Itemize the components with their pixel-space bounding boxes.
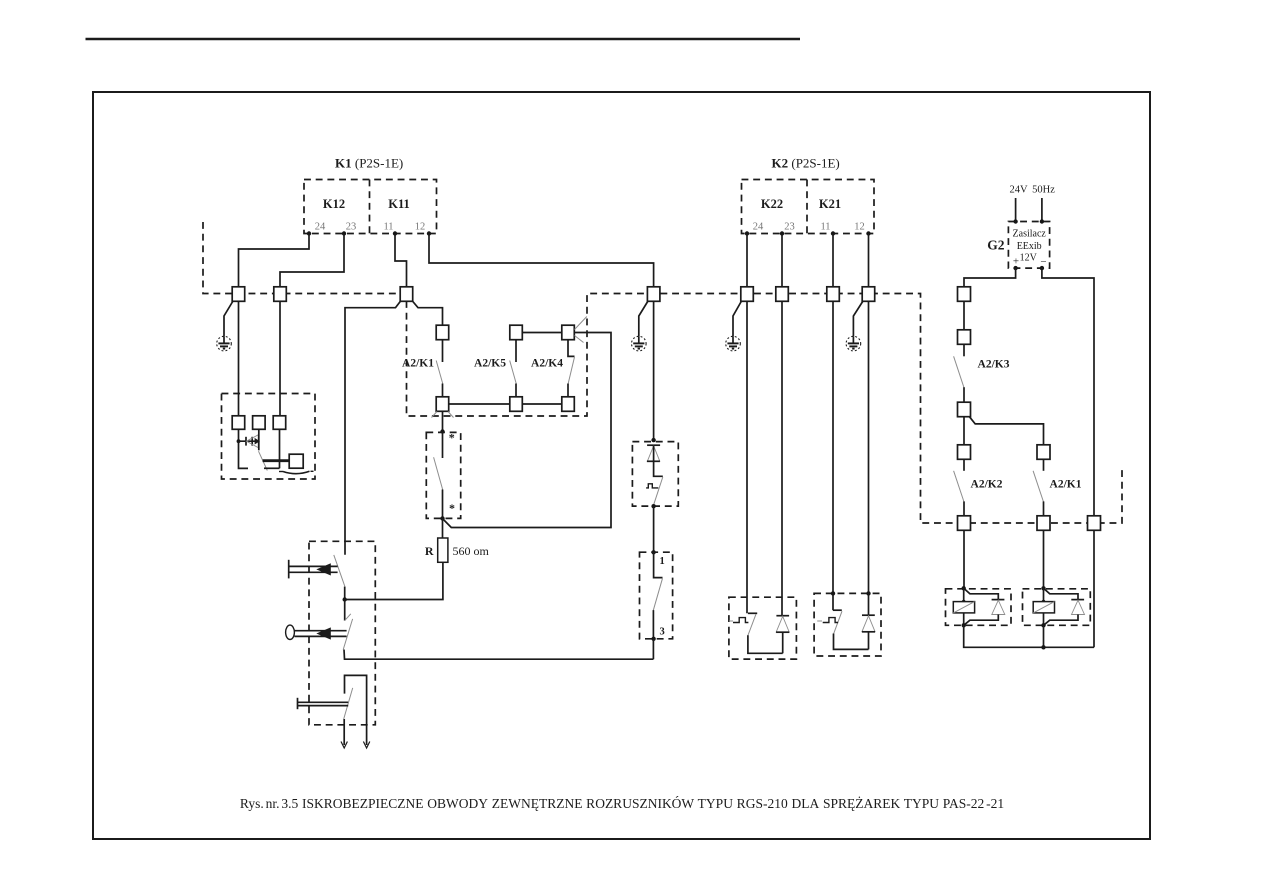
wire A2/K1 upper: [442, 340, 444, 362]
wire A2/K1 right to bus2: [1043, 501, 1045, 516]
relay K2 diode cathode bar: [1071, 599, 1084, 601]
terminal b of sensor: [253, 416, 266, 430]
ground at X9: [846, 336, 861, 351]
wire star contact lower: [442, 490, 444, 519]
K22 diode triangle: [776, 616, 789, 632]
svg-text:560 om: 560 om: [453, 544, 490, 558]
wire A2/K5 upper: [515, 340, 517, 362]
ground lead from X5: [639, 301, 648, 336]
wire contact 1 upper: [654, 552, 663, 577]
K22 contact lever: [748, 614, 756, 635]
diode D1 inside sensor: [239, 435, 260, 448]
dashed enclosure around contacts A2/K1 A2/K5 A2/K4 and right bus run: [407, 294, 1123, 524]
K22 diode cathode bar: [776, 615, 789, 617]
dashed barrier bus (left segment with stub): [203, 222, 413, 294]
svg-text:Zasilacz: Zasilacz: [1013, 229, 1047, 240]
svg-text:K22: K22: [761, 197, 783, 211]
terminal a of sensor: [232, 416, 245, 430]
svg-text:A2/K2: A2/K2: [971, 479, 1003, 491]
wire A2/K1 lower: [442, 384, 444, 397]
terminal X1: [232, 287, 245, 302]
contact A2/K4 lever: [568, 357, 574, 384]
node diode junction: [237, 439, 241, 443]
terminal X7: [776, 287, 789, 302]
wire K1-24 to terminal X1: [239, 234, 310, 288]
node K1 pin 24: [307, 231, 311, 235]
K21 diode anode bar: [862, 631, 875, 633]
K22 thermal notch: [733, 618, 748, 623]
wire X6 down: [746, 301, 748, 613]
wire relay K2 to minus rail: [1043, 625, 1045, 647]
resistor R 560 om: [438, 538, 448, 562]
terminal Y1 on plus wire: [958, 287, 971, 302]
wire star box to resistor: [442, 518, 444, 538]
wire X5 down to surge box: [653, 301, 655, 440]
contact 1-3 lever: [653, 578, 662, 610]
K22 diode anode bar: [776, 631, 789, 633]
contact A2/K5 lever: [510, 361, 517, 384]
svg-text:12: 12: [854, 222, 865, 233]
surge diode anode bar: [647, 460, 660, 462]
wire A2/K3 to Y3: [963, 387, 965, 402]
wire X9 down: [868, 301, 870, 615]
wire X2 down to instrument box: [279, 301, 281, 416]
aux wire arrowhead: [341, 742, 347, 749]
instrument enclosure (sensor unit): [222, 394, 316, 480]
wire Z2 down to relay K2 coil: [1043, 530, 1045, 588]
terminal Y4: [958, 445, 971, 460]
aux contact loop arrowhead: [363, 742, 369, 749]
relay K1 enclosure (P2S-1E): [304, 180, 437, 234]
node G2 ac left: [1013, 219, 1017, 223]
start button plunger: [289, 560, 338, 579]
K21 diode cathode bar: [862, 614, 875, 616]
svg-text:50Hz: 50Hz: [1032, 185, 1055, 196]
wire A2/K4 upper with jog: [568, 340, 575, 357]
wire node down to stop button: [344, 600, 346, 621]
node surge box top: [651, 438, 655, 442]
K21 diode triangle: [862, 616, 875, 632]
stop button contact lever: [343, 619, 352, 650]
ground lead from X6: [733, 301, 742, 336]
node K21 aux right: [866, 591, 870, 595]
terminal Z1 on bus2: [958, 516, 971, 531]
node relay K2 top: [1041, 586, 1045, 590]
wire K1-23 to terminal X2: [280, 234, 344, 288]
node surge box bottom: [651, 504, 655, 508]
wire A2/K4 lower: [567, 384, 569, 397]
arrow marks into A2/K4 terminal: [575, 317, 587, 330]
link between bottom terminals of A2/K1 and A2/K5: [449, 403, 510, 405]
ground lead from X1: [224, 301, 233, 336]
node contact box pin 1: [651, 550, 655, 554]
surge contact lever: [653, 477, 663, 506]
node minus rail junction: [1041, 645, 1045, 649]
terminal X8: [827, 287, 840, 302]
wire G2 plus to terminal: [964, 268, 1016, 287]
wire 24V supply right: [1041, 198, 1043, 222]
node star box top: [440, 429, 444, 433]
node relay K2 bottom: [1041, 623, 1045, 627]
terminal Z3 on bus2: [1088, 516, 1101, 531]
aux contact lever: [344, 688, 353, 719]
svg-text:EExib: EExib: [1017, 241, 1042, 252]
K22 aux enclosure: [729, 597, 797, 659]
node K1 pin 12: [427, 231, 431, 235]
wire surge diode down: [654, 445, 663, 476]
K21 thermal lead: [817, 620, 822, 622]
wire resistor down and left to pushbutton node: [345, 562, 443, 599]
node below start button: [343, 597, 347, 601]
wire K2-24 to terminal X6: [746, 234, 748, 288]
svg-text:11: 11: [383, 222, 393, 233]
star contact lever: [434, 457, 443, 490]
svg-text:A2/K1: A2/K1: [1050, 479, 1082, 491]
svg-text:K12: K12: [323, 197, 345, 211]
relay K2 coil enclosure: [1023, 589, 1091, 626]
ground at X5: [632, 336, 647, 351]
aux contact plunger: [298, 698, 349, 709]
wire A2/K5 lower: [515, 384, 517, 397]
terminal X2: [274, 287, 287, 302]
wire 24V supply left: [1015, 198, 1017, 222]
wire K2-11 to terminal X8: [832, 234, 834, 288]
terminal X3: [400, 287, 413, 302]
wire K21 contact bottom: [834, 634, 869, 650]
svg-text:A2/K3: A2/K3: [978, 359, 1010, 371]
relay K1 diode triangle: [992, 600, 1005, 614]
node relay K1 bottom: [962, 623, 966, 627]
contact A2/K3 lever: [954, 356, 964, 387]
wire stub at sensor contact: [264, 467, 280, 469]
wire relay K1 coil top: [963, 588, 965, 601]
terminal top of contact A2/K4: [562, 325, 575, 340]
relay K2 coil: [1033, 602, 1054, 613]
link between bottom terminals of A2/K5 and A2/K4: [522, 403, 561, 405]
node K1 pin 11: [393, 231, 397, 235]
terminal Z2 on bus2: [1037, 516, 1050, 531]
svg-text:12V: 12V: [1020, 253, 1038, 264]
svg-text:23: 23: [784, 222, 795, 233]
node G2 plus: [1013, 266, 1017, 270]
terminal X5: [647, 287, 660, 302]
svg-text:24V: 24V: [1009, 185, 1028, 196]
wire relay K2 coil top: [1043, 588, 1045, 601]
sensor switch lever: [259, 451, 268, 470]
K21 contact jog: [833, 609, 842, 611]
relay K2 enclosure (P2S-1E): [742, 180, 875, 234]
svg-text:A2/K4: A2/K4: [531, 358, 563, 370]
svg-text:24: 24: [315, 222, 326, 233]
wire Y5 down: [1043, 459, 1045, 471]
terminal Y2: [958, 330, 971, 345]
star contact enclosure: [426, 432, 460, 518]
wire A2/K1 bottom terminal to star box: [432, 411, 454, 431]
wire relay K1 to minus rail: [964, 625, 1094, 647]
wire star contact upper: [442, 432, 444, 459]
wire Z3 down to minus rail: [1093, 530, 1095, 647]
node relay K1 top: [962, 586, 966, 590]
link between top terminals of A2/K5 and A2/K4: [522, 332, 561, 334]
wire K2-23 to terminal X7: [781, 234, 783, 288]
relay K2 diode triangle: [1072, 600, 1085, 614]
svg-text:K21: K21: [819, 197, 841, 211]
wire A2/K2 to bus2: [963, 501, 965, 516]
ground lead from X9: [853, 301, 863, 336]
K21 thermal notch: [823, 618, 838, 623]
wire Y2 down: [963, 344, 965, 356]
drawing frame border: [93, 92, 1150, 839]
start button contact lever: [334, 555, 345, 587]
stop button contact jog: [345, 614, 351, 621]
surge diode cathode bar: [647, 444, 660, 446]
wire Y3 down to Y4: [963, 417, 965, 445]
wire X1 down to instrument box: [238, 301, 240, 416]
svg-text:K2 (P2S-1E): K2 (P2S-1E): [772, 156, 840, 171]
node K2 pin 11: [831, 231, 835, 235]
svg-text:K11: K11: [388, 197, 410, 211]
wire contact 3 lower: [652, 610, 654, 639]
terminal Y3: [958, 402, 971, 417]
wire K1-11 to terminal X3: [395, 234, 407, 288]
svg-text:G2: G2: [987, 238, 1005, 253]
terminal X6: [741, 287, 754, 302]
node relay K1 coil top: [962, 600, 966, 604]
node K1 pin 23: [342, 231, 346, 235]
svg-text:A2/K1: A2/K1: [402, 358, 434, 370]
svg-text:23: 23: [346, 222, 357, 233]
relay K2 diode branch top: [1044, 588, 1079, 599]
wire sensor terminal a down with stub: [239, 429, 249, 468]
svg-text:24: 24: [753, 222, 764, 233]
wire X8 down: [832, 301, 834, 610]
wire from A2/K4 terminal to right drop: [443, 333, 611, 528]
relay K1 coil enclosure: [946, 589, 1012, 626]
node K21 aux left: [831, 591, 835, 595]
terminal c of sensor: [273, 416, 286, 430]
svg-text:+: +: [1013, 256, 1019, 268]
terminal Y5: [1037, 445, 1050, 460]
svg-text:*: *: [449, 501, 455, 515]
surge arrester enclosure: [632, 442, 678, 507]
wire Y4 down: [963, 459, 965, 471]
node K2 pin 23: [780, 231, 784, 235]
terminal bottom of contact A2/K4: [562, 397, 575, 412]
wire K22 contact bottom: [748, 635, 783, 653]
node G2 minus: [1040, 266, 1044, 270]
wire sensor terminal c down with stub: [279, 429, 281, 468]
svg-text:R: R: [425, 544, 434, 558]
relay K1 coil: [953, 602, 974, 613]
ground at X1: [217, 336, 232, 351]
svg-text:3: 3: [660, 627, 665, 638]
terminal bottom of contact A2/K1: [436, 397, 449, 412]
svg-text:A2/K5: A2/K5: [474, 358, 506, 370]
stop button plunger: [286, 625, 347, 640]
relay K2 diode branch bottom: [1044, 615, 1079, 626]
thick bar to sensor element: [263, 459, 290, 462]
wire K2-12 to terminal X9: [868, 234, 870, 288]
node star box bottom: [440, 516, 444, 520]
wire start button to node: [344, 587, 346, 600]
K21 contact lever: [834, 611, 842, 633]
sensor pivot arc: [283, 471, 310, 473]
relay K1 diode branch top: [964, 588, 999, 599]
power supply G2 enclosure: [1008, 222, 1049, 269]
ground at X6: [726, 336, 741, 351]
pushbutton station enclosure: [309, 541, 375, 725]
svg-text:1: 1: [660, 556, 665, 567]
wire contact 3 down to long run: [652, 639, 654, 659]
sensor element square: [289, 454, 303, 468]
svg-text:11: 11: [820, 222, 830, 233]
wire relay K1 coil bottom: [963, 613, 965, 625]
wire Y1 to Y2: [963, 301, 965, 330]
aux contact loop: [345, 675, 367, 745]
surge diode triangle: [647, 446, 659, 461]
wire K21 diode bottom: [868, 632, 870, 650]
K22 thermal lead: [729, 620, 733, 622]
contact A2/K1 right lever: [1033, 471, 1043, 502]
wire K22 diode bottom: [782, 632, 784, 653]
relay K1 diode cathode bar: [992, 599, 1005, 601]
contact A2/K1 lever: [436, 361, 443, 384]
svg-text:12: 12: [415, 222, 426, 233]
node G2 ac right: [1040, 219, 1044, 223]
wire X3 left branch to pushbutton column: [345, 301, 401, 555]
surge thermal notch: [646, 484, 658, 488]
K21 aux enclosure: [814, 593, 881, 656]
wire stop button to long run: [344, 650, 653, 660]
svg-text:*: *: [449, 431, 455, 445]
node contact box pin 3: [651, 637, 655, 641]
terminal top of contact A2/K5: [510, 325, 523, 340]
relay K1 diode branch bottom: [964, 615, 999, 626]
node K2 pin 12: [866, 231, 870, 235]
contact A2/K2 lever: [954, 471, 964, 502]
wire X3 right branch to A2 contact group: [412, 301, 443, 326]
node K2 pin 24: [745, 231, 749, 235]
terminal X9: [862, 287, 875, 302]
wire surge box to contact 1-3: [653, 506, 655, 552]
node relay K2 coil top: [1042, 600, 1046, 604]
wire K1-12 to terminal X5: [429, 234, 654, 288]
wire sensor terminal b down: [258, 429, 260, 450]
K22 contact jog: [748, 612, 757, 614]
svg-text:Rys. nr. 3.5 ISKROBEZPIECZNE: Rys. nr. 3.5 ISKROBEZPIECZNE OBWODY ZEWN…: [240, 796, 1004, 811]
branch Y3 to A2/K1 column: [970, 417, 1044, 445]
wire aux contact down: [343, 719, 345, 745]
wire X7 down: [781, 301, 783, 616]
contact 1-3 enclosure: [640, 552, 673, 639]
wire G2 minus down right side: [1042, 268, 1094, 516]
wire Z1 down to relay K1 coil: [963, 530, 965, 588]
terminal top of contact A2/K1: [436, 325, 449, 340]
top header rule: [86, 38, 801, 41]
terminal bottom of contact A2/K5: [510, 397, 523, 412]
svg-text:K1 (P2S-1E): K1 (P2S-1E): [335, 156, 403, 171]
wire relay K2 coil bottom: [1043, 613, 1045, 625]
